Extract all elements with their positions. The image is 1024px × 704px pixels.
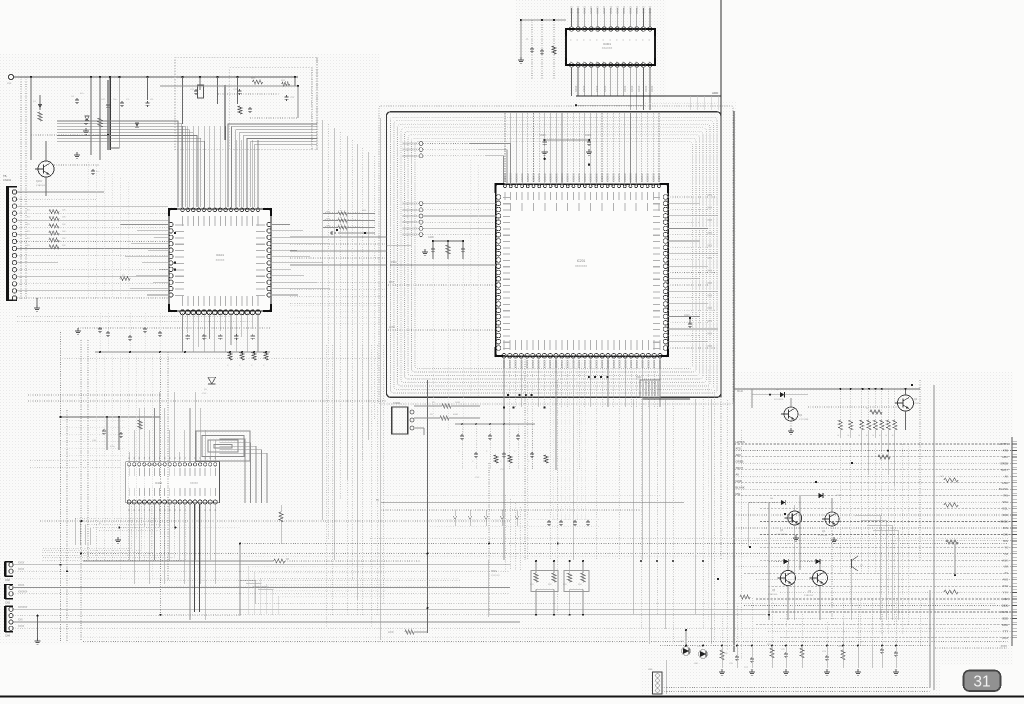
ground G3 [77,328,79,331]
verticals box-left going down [432,259,434,420]
diode D302 [800,495,819,497]
svg-text:XXXXX: XXXXX [629,6,632,14]
svg-text:RW: RW [1003,494,1008,498]
svg-text:XXXXX: XXXXX [634,173,638,182]
svg-text:XXXXX: XXXXX [606,360,609,369]
svg-text:XXXXX: XXXXX [589,360,592,369]
svg-text:XXXXX: XXXXX [571,6,574,14]
svg-text:XXXX: XXXX [604,85,607,92]
svg-text:XXX: XXX [707,333,712,335]
transistor Q303 [781,571,796,586]
svg-text:XXXX: XXXX [575,85,578,92]
rail y553 [83,553,1008,555]
IC IC201 pins bottom [502,354,507,359]
ground Q302 [833,537,835,540]
rail y527 below IC102 [119,527,240,529]
bus bundle verticals x322-383 mid [321,120,323,520]
rail y603 [256,603,996,605]
svg-text:XXXXX: XXXXX [554,173,558,182]
component label row y360 [228,352,232,360]
svg-text:TP91: TP91 [491,570,497,573]
diode D101 [39,95,41,110]
wire hline 148 [110,147,119,149]
svg-text:VDD: VDD [1002,513,1008,517]
svg-text:XXXXXX: XXXXXX [491,575,500,577]
right edge terminal rail [1011,437,1013,646]
svg-text:XXXXX: XXXXX [519,360,522,369]
svg-text:XXXXX: XXXXX [577,360,580,369]
svg-text:GREB: GREB [736,460,744,464]
resistor R107 [120,277,130,281]
svg-text:XXXXX: XXXXX [560,173,564,182]
svg-text:GND2: GND2 [1000,520,1008,524]
svg-text:XXXXX: XXXXX [617,173,621,182]
bus bends right of IC102 [219,439,245,503]
svg-text:TTT: TTT [1003,629,1008,633]
wire PRG row [390,264,496,266]
rail y521 below IC102 [40,520,510,522]
wires regulator box [160,85,298,87]
vertical x489 [488,463,490,614]
svg-text:5V: 5V [376,499,379,502]
svg-text:220R: 220R [388,632,394,634]
svg-text:XXXXX: XXXXX [190,482,198,485]
svg-text:GIN: GIN [1003,532,1008,536]
IC IC201 pins top [504,185,507,188]
svg-text:GND: GND [1002,481,1008,485]
IC IC101 pins top [181,208,185,212]
junction row y424 [461,423,463,425]
zener D102 [85,116,89,121]
svg-text:XXXXX: XXXXX [603,6,606,14]
svg-text:UUU: UUU [1002,636,1008,640]
wire cn junction dots [174,232,176,234]
resistor array R160 block [323,213,338,215]
svg-text:XXXXX: XXXXX [537,360,540,369]
box small shield around regulator [175,58,317,150]
svg-text:100R: 100R [455,402,460,404]
svg-text:XXX: XXX [707,245,712,247]
svg-text:QQQ: QQQ [1001,604,1008,608]
IC IC201 top pin labels [504,192,506,200]
IC IC101 pins right [267,222,271,226]
svg-text:IC101: IC101 [216,253,224,257]
IC101 bottom pin wires [182,313,184,352]
capacitor C302 cluster left of IC301 [531,20,533,80]
svg-text:XXXXX: XXXXX [514,173,518,182]
svg-text:XXXXX: XXXXX [589,173,593,182]
junction dots under IC201 [503,406,505,408]
resistor pair R66 mid [325,212,360,214]
transistor Q202 top right [898,395,914,411]
svg-text:PRG: PRG [391,260,397,264]
connector CN101 pins [12,190,16,194]
transistor Q304 [813,571,828,586]
bus bends into IC101 top-left [57,121,178,207]
diode D301 [749,502,781,504]
main shield box around IC201 [387,112,722,398]
IC IC301 pins bottom [569,63,573,67]
wire LOW row [388,329,496,331]
CN201 wires with resistors [414,405,442,407]
IC IC201 bottom pin labels [503,340,505,350]
bus risers x505-520 bottom [504,495,506,570]
svg-text:XXXX: XXXX [1001,645,1008,648]
svg-text:XXXX: XXXX [651,85,654,92]
wire RST row [388,284,496,286]
svg-text:X201: X201 [636,376,642,379]
bus line right vertical x721 [720,0,722,397]
transistor Q101 [38,161,54,177]
svg-text:XXXXX: XXXXX [623,173,627,182]
svg-text:LED: LED [694,663,699,665]
svg-text:D2 XXXX: D2 XXXX [774,399,784,401]
svg-text:ARC: ARC [1002,455,1008,459]
spark gap symbols row [453,516,457,519]
resistor pair R191 R192 [535,561,537,573]
capacitor C101 [76,98,78,100]
rails mid bottom y495-526 [381,494,660,496]
svg-text:BLANK: BLANK [999,487,1008,491]
svg-text:AV: AV [736,473,740,477]
svg-text:XXXXX: XXXXX [571,173,575,182]
capacitor C321 [751,657,753,659]
svg-text:CN3: CN3 [5,602,10,605]
diode D121 [135,123,139,127]
IC IC102 body [126,462,220,503]
svg-text:XXXXX: XXXXX [636,6,639,14]
bus IC101 to shield box [290,236,387,238]
wire hline 135 [31,134,108,136]
capacitor C206 [588,140,590,142]
right edge pin ticks [1012,443,1017,445]
svg-text:XXXX: XXXX [18,563,25,565]
svg-text:XXXX: XXXX [638,85,641,92]
svg-text:XXXX: XXXX [18,585,25,587]
IC IC201 corner brackets [496,184,506,193]
bus horizontals x240-386 y560-612 [248,565,386,567]
svg-text:XXXXX: XXXXX [583,173,587,182]
svg-text:AV: AV [1004,474,1008,478]
junction dots bottom row [685,645,687,647]
IC IC101 body [169,209,271,311]
svg-text:KTA1266: KTA1266 [768,593,778,596]
svg-text:XXXXX: XXXXX [600,173,604,182]
rails y580-600 left [0,578,460,580]
connector CN201 [392,407,408,434]
connector CN102 [4,562,6,577]
svg-text:XXX: XXX [707,346,712,348]
wire ADD bus horizontal [576,95,721,97]
svg-text:XXX: XXX [7,83,12,85]
rail y556 [240,555,1008,557]
svg-text:XXQXXXXX: XXQXXXXX [402,233,417,237]
svg-text:XXXXXX: XXXXXX [18,592,28,594]
svg-text:XXXXX: XXXXX [508,360,511,369]
wires under IC101 from connector [17,315,230,317]
svg-text:CN4: CN4 [5,635,10,638]
CN301 wires [662,687,930,689]
svg-text:CN101: CN101 [3,178,12,182]
svg-text:TROT: TROT [736,466,744,470]
CN102 wires [13,564,510,566]
svg-text:XXXXX: XXXXX [560,360,563,369]
svg-text:470u: 470u [110,446,116,448]
svg-text:XXXXX: XXXXX [600,360,603,369]
IC IC201 left pin labels [503,197,510,199]
transistor Q302 [825,512,839,526]
resistor R405 on row [878,455,890,459]
svg-text:XXX: XXX [475,477,480,479]
capacitor C210 right of IC201 [689,322,691,324]
IC IC201 body [496,184,669,356]
svg-text:KTC3198: KTC3198 [818,535,828,537]
svg-text:SDA: SDA [1002,500,1008,504]
svg-text:GREB: GREB [1000,461,1008,465]
svg-text:XXXX: XXXX [624,85,627,92]
svg-text:YYY: YYY [1002,591,1008,595]
bus horizontals left y420-470 [60,419,125,421]
svg-text:XXX: XXX [707,233,712,235]
IC101 right pin labels [256,224,265,226]
svg-text:TROT: TROT [1000,468,1008,472]
svg-text:XXXXX: XXXXX [526,173,530,182]
wire verticals x60 x67 x81 [60,332,62,642]
component group x827-847 [826,655,828,657]
vertical x525 [524,357,526,560]
bus bends into IC101 top-right [228,124,317,207]
svg-text:XXXXX: XXXXX [652,360,655,369]
svg-text:XXXXX: XXXXX [548,360,551,369]
svg-text:XXXXX: XXXXX [216,258,225,262]
rail y538 [370,538,1008,540]
IC301 top pin wires [571,8,573,27]
svg-text:XXX: XXX [707,258,712,260]
ground below IC102 [117,537,119,540]
wire rail y401 [28,400,386,402]
svg-text:XXXXX: XXXXX [549,173,553,182]
verticals bottom row [721,614,723,646]
resistor R140 [138,420,142,429]
diode D201 [752,394,780,396]
IC301 bottom pin wires [571,67,573,96]
svg-text:XXXXX: XXXXX [583,360,586,369]
svg-text:XXX: XXX [202,393,207,395]
svg-text:XXXXX: XXXXX [651,173,655,182]
svg-text:BLANK: BLANK [736,485,745,489]
rail y641 [83,641,1008,643]
svg-text:IC301: IC301 [603,42,611,46]
svg-text:LOW: LOW [389,325,395,329]
svg-text:XXXXX: XXXXX [520,173,524,182]
svg-text:XXXXX: XXXXX [641,360,644,369]
capacitors under IC101 [187,334,189,336]
svg-text:CN5: CN5 [648,669,653,671]
svg-text:XXXXX: XXXXX [623,6,626,14]
wire rail y395 left [28,394,160,396]
capacitor C133 [330,232,332,234]
resistor R404 on row [944,590,958,594]
connector CN103 [4,584,6,599]
IC IC201 pins left [496,195,501,200]
IC IC101 pins bottom [180,310,185,315]
component group x882-902 [740,595,750,599]
svg-text:XXX: XXX [1002,584,1008,588]
component cluster mid y430-476 [461,424,463,470]
svg-text:XXXXX: XXXXX [554,360,557,369]
outer dotted frame around main box [379,106,733,404]
capacitor C124 under box [249,107,251,109]
IC IC301 corner brackets [566,29,575,36]
svg-text:AUX: AUX [1002,558,1008,562]
bus line right vertical x734 [733,111,735,652]
rail y460 left [30,459,120,461]
svg-text:SCL: SCL [1003,507,1009,511]
wire drops from top rail [30,77,32,160]
svg-text:WWW: WWW [1000,610,1008,614]
capacitor C122 [239,89,241,91]
resistor R402 on row [944,503,958,507]
IC102 bottom pin wires [128,504,130,560]
svg-text:XXXXX: XXXXX [629,360,632,369]
LED D310 [683,648,689,654]
svg-text:BIN: BIN [1003,539,1008,543]
transistor Q305 small [850,559,852,568]
svg-text:XXXXX: XXXXX [590,6,593,14]
capacitor cluster C106 under terminals [387,244,412,246]
svg-text:XXXXX: XXXXX [502,360,505,369]
rail y467 left [30,466,120,468]
wire under IC301 [576,104,645,106]
ground CN101 bottom [36,305,38,308]
resistor pair R193 R194 [569,561,571,573]
svg-text:31: 31 [973,674,990,691]
svg-text:KTA1504: KTA1504 [36,184,46,187]
IC IC201 pins right [663,195,668,200]
svg-text:XXXX: XXXX [836,495,842,497]
IC IC102 pins bottom [127,500,131,504]
wire rail y417 to IC102 [61,416,126,418]
IC101 left pin labels [175,224,184,226]
CN104 wires [13,608,990,610]
diode D303 [769,561,784,563]
terminal TP1 [8,74,13,79]
link IC101 area to shield box rows [290,281,387,283]
svg-text:XXX: XXX [500,469,505,471]
wire dark vertical x225 [224,85,226,140]
ground Q301 [795,535,797,538]
svg-text:XXXXX: XXXXX [611,173,615,182]
resistor R180 vertical [279,512,283,522]
IC IC201 inner second label band [510,203,512,211]
svg-text:YS: YS [1004,545,1008,549]
svg-text:XXXXX: XXXXX [577,6,580,14]
bend wires right of quad [855,515,880,620]
svg-text:XXXX: XXXX [645,85,648,92]
wire rail y358 dotted [60,357,380,359]
wire q101 collector [45,141,47,161]
svg-text:ZZZ: ZZZ [1003,597,1008,601]
svg-text:AVS: AVS [1003,578,1009,582]
svg-text:400R: 400R [453,414,458,416]
svg-text:XXXXX: XXXXX [537,173,541,182]
regulator components R121 R122 [253,80,263,84]
terminal PRG inputs upper [419,142,423,146]
link left column to bottom [95,520,97,560]
svg-text:XXX: XXX [707,271,712,273]
transistor Q201 [784,407,798,421]
wire crystal to box [643,398,691,400]
svg-text:XXX: XXX [18,620,23,622]
box small shield inner [230,68,312,150]
wire top-left entry to IC301 [521,19,532,21]
svg-text:ADD: ADD [712,91,719,95]
svg-text:XXXXX: XXXXX [514,360,517,369]
svg-text:XXQXXXXX: XXQXXXXX [402,142,417,146]
vertical x160 long [160,352,162,615]
capacitor C123 [286,95,288,97]
IC201 bottom pin wires [503,356,505,561]
extra junction dots rails [239,543,241,545]
svg-text:XXXXX: XXXXX [525,360,528,369]
svg-text:XXX: XXX [707,220,712,222]
dark vertical pair x194-200 [194,504,196,612]
connector CN104 [4,606,6,632]
resistor ladder R101-R106 [49,210,59,214]
grounds bottom row [721,669,723,672]
svg-text:XXXXX: XXXXX [566,173,570,182]
junction dots on rows [887,450,889,452]
resistor R401 on row [944,478,958,482]
wire main top rail [14,76,298,78]
capacitor C104 [121,101,123,103]
page border bottom [0,695,1024,697]
svg-text:XXXXX: XXXXX [658,360,661,369]
svg-text:C106: C106 [428,236,434,239]
svg-text:XXXXXX: XXXXXX [18,607,28,609]
svg-text:XXXXX: XXXXX [566,360,569,369]
svg-text:LWTFS: LWTFS [736,440,745,444]
svg-text:IC201: IC201 [577,259,586,263]
svg-text:XXXXX: XXXXX [649,6,652,14]
IC IC101 pins left [169,222,173,226]
wire cap link [545,139,589,141]
scan dither texture [0,54,380,645]
junction dots top rail [30,76,33,79]
svg-text:XXXXX: XXXXX [606,173,610,182]
svg-text:XXXXX: XXXXX [618,360,621,369]
bus spiral below IC101 [196,431,250,461]
svg-text:Q101: Q101 [36,180,43,183]
svg-text:XXQXXXXX: XXQXXXXX [402,208,417,212]
capacitor C105 [147,101,149,103]
rail y614 [160,614,770,616]
capacitor C121 [195,89,197,91]
capacitor C320 [736,655,738,657]
svg-text:XXXX: XXXX [914,403,920,405]
svg-text:XXXXX: XXXXX [616,6,619,14]
svg-text:XXXXX: XXXXX [594,360,597,369]
wire rail y328 [78,327,270,329]
svg-text:XXXX: XXXX [18,569,25,571]
svg-text:XXQXXXXX: XXQXXXXX [402,220,417,224]
resistor R406 on row [870,410,882,414]
svg-text:ATS: ATS [1003,448,1008,452]
svg-text:KTA1266: KTA1266 [804,594,814,597]
IC IC102 pins top [128,463,131,466]
vertical crossing bundle right of CN101 [87,162,89,298]
svg-text:30 uF: 30 uF [737,390,744,393]
